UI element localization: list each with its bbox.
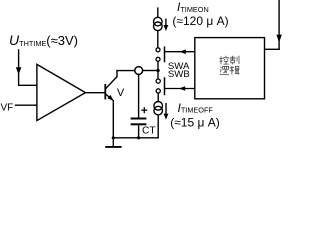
wire circle down to capacitor <box>138 74 140 117</box>
svg-text:(≈15 μ A): (≈15 μ A) <box>170 116 220 130</box>
char 制 <box>230 56 239 65</box>
bottom rail wire <box>113 137 158 139</box>
current arrow ITIMEOFF <box>165 103 167 116</box>
current source ITIMEOFF (double circle) <box>154 102 163 111</box>
switch SWB contacts <box>156 79 160 83</box>
junction dot capacitor/rail <box>137 136 140 139</box>
ground <box>112 138 114 146</box>
svg-text:V: V <box>117 87 125 99</box>
svg-text:CT: CT <box>142 126 156 137</box>
voltage arrow U_THTIME <box>18 49 20 85</box>
char 逻 <box>220 66 229 74</box>
wire SWB to ITIMEOFF source <box>157 93 159 102</box>
current source ITIMEON (double circle) <box>154 17 163 26</box>
wire source to bottom rail <box>157 115 159 139</box>
terminal node circle <box>135 67 143 75</box>
char 控 <box>219 56 229 65</box>
svg-text:(≈120 μ A): (≈120 μ A) <box>172 14 228 28</box>
switch SWA gate bar <box>164 47 166 63</box>
switch SWA contacts <box>156 48 160 52</box>
svg-text:SWB: SWB <box>168 69 190 80</box>
wire VF to op-amp bottom input <box>15 104 37 106</box>
switch SWB gate bar <box>164 77 166 95</box>
char 辑 <box>230 66 240 75</box>
emitter wire down <box>112 100 114 138</box>
junction dot emitter/rail <box>112 136 115 139</box>
wire source to SWA <box>157 31 159 48</box>
capacitor lead down <box>138 125 140 138</box>
wire collector to terminal circle <box>116 70 135 72</box>
junction dot on rail <box>157 69 160 72</box>
wire circle to right rail <box>143 70 159 72</box>
current arrow ITIMEON <box>165 19 167 28</box>
capacitor CT plates <box>131 118 147 120</box>
op-amp U1 <box>37 64 86 120</box>
svg-text:ITIMEOFF: ITIMEOFF <box>178 101 214 115</box>
svg-text:VF: VF <box>1 102 14 113</box>
box text 控制 逻辑 (drawn glyphs) <box>219 56 239 75</box>
right rail top wire <box>157 7 159 17</box>
capacitor polarity + <box>141 107 147 113</box>
svg-text:ITIMEON: ITIMEON <box>177 0 209 14</box>
control logic box <box>195 38 265 99</box>
control line to SWB <box>165 88 195 90</box>
svg-text:UTHTIME(≈3V): UTHTIME(≈3V) <box>9 32 78 48</box>
top right wire into box <box>278 0 280 50</box>
wire op-amp output to base <box>86 92 105 94</box>
control line to SWA <box>165 51 195 53</box>
transistor V <box>105 71 117 101</box>
wire arrow to op-amp top input <box>18 84 37 86</box>
wire SWA to SWB <box>157 61 159 79</box>
